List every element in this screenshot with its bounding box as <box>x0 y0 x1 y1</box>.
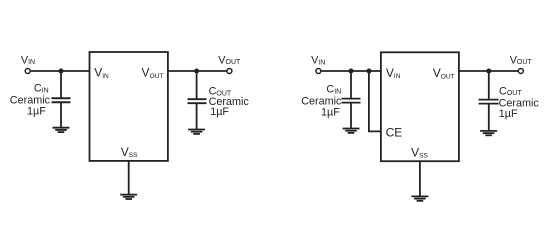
svg-text:1µF: 1µF <box>27 105 46 117</box>
ground (below U1 VSS) <box>120 195 137 199</box>
ground (below CIN) <box>53 128 70 132</box>
node junction dot at COUT tap <box>194 69 199 74</box>
wire U1 VSS pin to ground <box>128 161 130 195</box>
svg-text:CE: CE <box>386 125 403 139</box>
node junction dot at CE tap <box>367 69 372 74</box>
wire input terminal to regulator U2 <box>321 70 381 72</box>
output terminal (open circle) <box>227 69 232 74</box>
wire CE tap down to CE pin <box>369 71 381 131</box>
wire CIN bottom plate to ground <box>60 103 62 128</box>
wire junction to CIN top plate <box>60 71 62 98</box>
node junction dot at COUT tap <box>486 69 491 74</box>
ground (below U2 VSS) <box>411 196 428 200</box>
capacitor COUT plates <box>188 99 207 103</box>
ground (below COUT) <box>188 130 205 134</box>
ground (below COUT) <box>480 131 497 135</box>
wire COUT bottom plate to ground <box>196 104 198 130</box>
input terminal (open circle) <box>316 69 321 74</box>
wire CIN bottom plate to ground <box>350 103 352 128</box>
wire input terminal to regulator U1 <box>31 70 90 72</box>
wire U2 VOUT to output terminal <box>459 70 518 72</box>
capacitor CIN plates <box>342 99 361 103</box>
regulator U1 box <box>90 52 168 161</box>
wire COUT bottom plate to ground <box>488 104 490 130</box>
svg-text:1µF: 1µF <box>321 106 340 118</box>
node junction dot at CIN tap <box>59 69 64 74</box>
wire U2 VSS pin to ground <box>419 161 421 196</box>
ground (below CIN) <box>343 129 360 133</box>
output terminal (open circle) <box>518 69 523 74</box>
wire U1 VOUT to output terminal <box>168 70 227 72</box>
input terminal (open circle) <box>25 69 30 74</box>
wire junction to CIN top plate <box>350 71 352 98</box>
regulator U2 box <box>381 52 459 161</box>
capacitor CIN plates <box>52 98 71 102</box>
node junction dot at CIN tap <box>349 69 354 74</box>
svg-text:1µF: 1µF <box>499 108 518 120</box>
wire junction to COUT top plate <box>488 71 490 99</box>
svg-text:1µF: 1µF <box>210 106 229 118</box>
wire junction to COUT top plate <box>196 71 198 99</box>
capacitor COUT plates <box>479 100 499 104</box>
